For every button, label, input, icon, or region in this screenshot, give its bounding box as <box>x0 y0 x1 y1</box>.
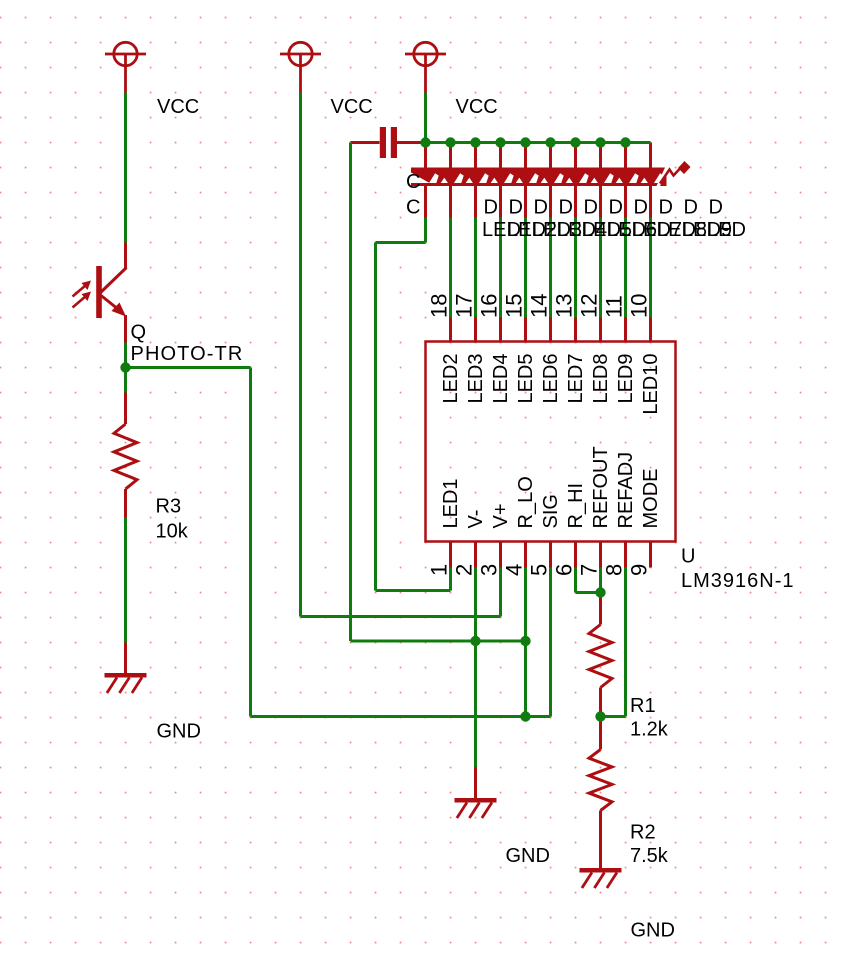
svg-text:R_LO: R_LO <box>515 476 537 528</box>
LED D5 cathode stub <box>524 185 527 218</box>
wire LED4 cathode <box>499 218 502 318</box>
LED D7 anode stub <box>574 143 577 170</box>
svg-text:1: 1 <box>427 564 452 576</box>
svg-text:17: 17 <box>452 294 477 318</box>
wire node to SIG <box>126 368 551 717</box>
pin number 17 <box>452 294 477 318</box>
pin number 2 <box>452 564 477 576</box>
svg-text:D: D <box>659 197 673 219</box>
wire LED1 cathode to pin1 <box>376 218 451 591</box>
pin 10 stub <box>649 318 652 342</box>
junction node 1 <box>420 137 430 147</box>
label D6 name <box>609 197 623 219</box>
svg-text:12: 12 <box>577 294 602 318</box>
junction node 7 <box>570 137 580 147</box>
svg-text:VCC: VCC <box>157 96 199 118</box>
svg-text:GND: GND <box>157 721 201 743</box>
pin number 9 <box>627 564 652 576</box>
label VCC1 <box>157 96 199 118</box>
label U <box>681 546 695 568</box>
label D1 name <box>484 197 498 219</box>
pin name LED5 <box>515 354 537 404</box>
LED D7 cathode stub <box>574 185 577 218</box>
svg-text:15: 15 <box>502 294 527 318</box>
label PHOTO-TR <box>131 343 244 365</box>
svg-text:3: 3 <box>477 564 502 576</box>
pin number 11 <box>602 295 627 318</box>
wire R3 to GND <box>124 518 127 643</box>
pin name LED1 <box>440 478 462 528</box>
svg-text:D: D <box>634 197 648 219</box>
label D9 name <box>684 197 698 219</box>
svg-text:D: D <box>584 197 598 219</box>
label GND left <box>157 721 201 743</box>
label C name <box>406 171 420 193</box>
LED D5 anode stub <box>524 143 527 170</box>
junction node 5 <box>520 137 530 147</box>
svg-text:4: 4 <box>502 564 527 576</box>
op-amp/IC U LM3916N-1 box <box>426 342 676 542</box>
svg-text:MODE: MODE <box>640 469 662 529</box>
LED D1 cathode stub <box>424 185 427 218</box>
pin name LED6 <box>540 354 562 404</box>
wire LED10 cathode <box>649 218 652 318</box>
pin name R_HI <box>565 483 587 529</box>
wire REFADJ to R1 <box>601 568 626 717</box>
svg-text:R3: R3 <box>156 496 182 518</box>
label R2 <box>630 822 656 844</box>
LED D10 anode stub <box>649 143 652 170</box>
LED D10 cathode stub <box>649 185 652 218</box>
svg-text:V+: V+ <box>490 503 512 528</box>
svg-text:C: C <box>406 197 420 219</box>
wire V- to GND <box>474 568 477 768</box>
ground GND (right) <box>580 868 622 888</box>
pin 16 stub <box>499 318 502 342</box>
pin number 12 <box>577 294 602 318</box>
svg-text:REFADJ: REFADJ <box>615 452 637 529</box>
svg-text:C: C <box>406 171 420 193</box>
resistor R1 <box>589 593 612 717</box>
wire LED8 cathode <box>599 218 602 318</box>
svg-text:LED5: LED5 <box>515 354 537 404</box>
LED D9 cathode stub <box>624 185 627 218</box>
ground GND (left) <box>105 643 147 694</box>
supply VCC symbol 3 <box>405 42 446 92</box>
wire cap to V- net <box>351 143 526 642</box>
LED D3 anode stub <box>474 143 477 170</box>
svg-text:6: 6 <box>552 564 577 576</box>
svg-text:10k: 10k <box>156 521 189 543</box>
wire VCC2 to V+ <box>301 93 501 617</box>
svg-text:VCC: VCC <box>456 96 498 118</box>
svg-text:LED7: LED7 <box>565 354 587 404</box>
svg-text:LM3916N-1: LM3916N-1 <box>681 570 795 592</box>
svg-text:D: D <box>484 197 498 219</box>
svg-text:GND: GND <box>506 845 550 867</box>
label D2 name <box>509 197 523 219</box>
wire LED5 cathode <box>524 218 527 318</box>
label D4 name <box>559 197 573 219</box>
pin name SIG <box>540 494 562 528</box>
pin 3 stub <box>499 542 502 568</box>
svg-text:D: D <box>684 197 698 219</box>
pin number 6 <box>552 564 577 576</box>
label Q <box>131 322 147 344</box>
label D10 name <box>709 197 723 219</box>
pin 18 stub <box>449 318 452 342</box>
wire LED6 cathode <box>549 218 552 318</box>
svg-text:D: D <box>559 197 573 219</box>
wire LED3 cathode <box>474 218 477 318</box>
wire VCC3 drop <box>424 93 427 143</box>
pin number 4 <box>502 564 527 576</box>
supply VCC symbol 1 <box>105 42 146 92</box>
svg-text:9: 9 <box>627 564 652 576</box>
junction node 15 <box>595 711 605 721</box>
svg-text:10: 10 <box>627 294 652 318</box>
junction node 13 <box>520 711 530 721</box>
svg-text:R_HI: R_HI <box>565 483 587 529</box>
junction node 4 <box>495 137 505 147</box>
junction node 9 <box>620 137 630 147</box>
svg-text:Q: Q <box>131 322 147 344</box>
LED D2 anode stub <box>449 143 452 170</box>
svg-text:5: 5 <box>527 564 552 576</box>
LED D6 cathode stub <box>549 185 552 218</box>
svg-text:D: D <box>509 197 523 219</box>
pin name LED10 <box>640 354 662 415</box>
pin number 5 <box>527 564 552 576</box>
LED D4 anode stub <box>499 143 502 170</box>
pin 13 stub <box>574 318 577 342</box>
pin name MODE <box>640 469 662 529</box>
supply VCC symbol 2 <box>280 42 321 92</box>
pin 5 stub <box>549 542 552 568</box>
junction node 10 <box>120 362 130 372</box>
svg-text:LED6: LED6 <box>540 354 562 404</box>
pin name LED9 <box>615 354 637 404</box>
junction node 12 <box>520 636 530 646</box>
LED D8 anode stub <box>599 143 602 170</box>
pin number 18 <box>427 294 452 318</box>
pin number 3 <box>477 564 502 576</box>
resistor R2 <box>589 717 612 869</box>
label D7 name <box>634 197 648 219</box>
svg-text:LED1: LED1 <box>440 478 462 528</box>
LED D4 cathode stub <box>499 185 502 218</box>
pin 4 stub <box>524 542 527 568</box>
pin 6 stub <box>574 542 577 568</box>
label D3 name <box>534 197 548 219</box>
svg-text:11: 11 <box>602 295 627 318</box>
pin number 1 <box>427 564 452 576</box>
junction node 11 <box>470 636 480 646</box>
junction node 14 <box>595 587 605 597</box>
svg-text:D: D <box>709 197 723 219</box>
svg-text:LED9: LED9 <box>615 354 637 404</box>
ground GND (middle) <box>455 768 497 819</box>
svg-text:LED10: LED10 <box>640 354 662 415</box>
pin 11 stub <box>624 318 627 342</box>
svg-text:16: 16 <box>477 294 502 318</box>
svg-text:7.5k: 7.5k <box>630 845 669 867</box>
wire LED2 cathode <box>449 218 452 318</box>
pin number 16 <box>477 294 502 318</box>
label GND right <box>631 920 675 942</box>
label VCC2 <box>331 96 373 118</box>
wire VCC1 drop <box>124 93 127 243</box>
svg-text:1.2k: 1.2k <box>630 719 669 741</box>
svg-text:LED4: LED4 <box>490 354 512 404</box>
pin number 10 <box>627 294 652 318</box>
wire LED7 cathode <box>574 218 577 318</box>
svg-text:R1: R1 <box>630 695 656 717</box>
svg-text:R2: R2 <box>630 822 656 844</box>
junction node 8 <box>595 137 605 147</box>
pin name REFADJ <box>615 452 637 529</box>
label D8 name <box>659 197 673 219</box>
pin number 13 <box>552 294 577 318</box>
svg-text:LED8: LED8 <box>590 354 612 404</box>
label R3 value 10k <box>156 521 189 543</box>
LED D1 anode stub <box>424 143 427 170</box>
pin name R_LO <box>515 476 537 528</box>
pin number 7 <box>577 564 602 576</box>
svg-text:REFOUT: REFOUT <box>590 446 612 528</box>
pin name LED7 <box>565 354 587 404</box>
svg-text:18: 18 <box>427 294 452 318</box>
svg-text:LED3: LED3 <box>465 354 487 404</box>
capacitor C <box>351 127 426 158</box>
junction node 3 <box>470 137 480 147</box>
pin 15 stub <box>524 318 527 342</box>
label R3 <box>156 496 182 518</box>
svg-text:14: 14 <box>527 294 552 318</box>
label VCC3 <box>456 96 498 118</box>
pin name V- <box>465 510 487 529</box>
label LM3916N-1 <box>681 570 795 592</box>
pin name REFOUT <box>590 446 612 528</box>
svg-text:PHOTO-TR: PHOTO-TR <box>131 343 244 365</box>
pin 17 stub <box>474 318 477 342</box>
svg-text:7: 7 <box>577 564 602 576</box>
junction node 2 <box>445 137 455 147</box>
pin number 14 <box>527 294 552 318</box>
LED D9 anode stub <box>624 143 627 170</box>
pin number 15 <box>502 294 527 318</box>
pin 2 stub <box>474 542 477 568</box>
wire LED9 cathode <box>624 218 627 318</box>
LED D8 cathode stub <box>599 185 602 218</box>
pin 8 stub <box>624 542 627 568</box>
svg-text:8: 8 <box>602 564 627 576</box>
svg-text:U: U <box>681 546 695 568</box>
svg-text:SIG: SIG <box>540 494 562 528</box>
svg-text:2: 2 <box>452 564 477 576</box>
label GND middle <box>506 845 550 867</box>
pin 7 stub <box>599 542 602 568</box>
wire REFOUT <box>599 568 602 593</box>
label D5 name <box>584 197 598 219</box>
svg-text:LED2: LED2 <box>440 354 462 404</box>
LED D6 anode stub <box>549 143 552 170</box>
wire anode bus <box>426 141 651 144</box>
label R1 value 1.2k <box>630 719 669 741</box>
pin 14 stub <box>549 318 552 342</box>
label R2 value 7.5k <box>630 845 669 867</box>
LED bargraph D1-D10 (overlapping diode symbols) <box>411 161 691 186</box>
svg-text:D: D <box>534 197 548 219</box>
svg-text:VCC: VCC <box>331 96 373 118</box>
svg-text:13: 13 <box>552 294 577 318</box>
pin 1 stub <box>449 542 452 568</box>
label C value <box>406 197 420 219</box>
svg-text:D: D <box>609 197 623 219</box>
wire emitter to R3 node <box>124 343 127 393</box>
svg-text:GND: GND <box>631 920 675 942</box>
pin 9 stub <box>649 542 652 568</box>
LED D3 cathode stub <box>474 185 477 218</box>
junction node 6 <box>545 137 555 147</box>
wire R_HI jog <box>576 568 601 593</box>
pin name LED4 <box>490 354 512 404</box>
pin name V+ <box>490 503 512 528</box>
pin name LED3 <box>465 354 487 404</box>
transistor Q PHOTO-TR <box>73 243 127 343</box>
pin number 8 <box>602 564 627 576</box>
svg-text:V-: V- <box>465 510 487 529</box>
wire R_LO down <box>524 568 527 717</box>
pin 12 stub <box>599 318 602 342</box>
label R1 <box>630 695 656 717</box>
pin name LED2 <box>440 354 462 404</box>
LED D2 cathode stub <box>449 185 452 218</box>
pin name LED8 <box>590 354 612 404</box>
resistor R3 <box>114 393 137 518</box>
